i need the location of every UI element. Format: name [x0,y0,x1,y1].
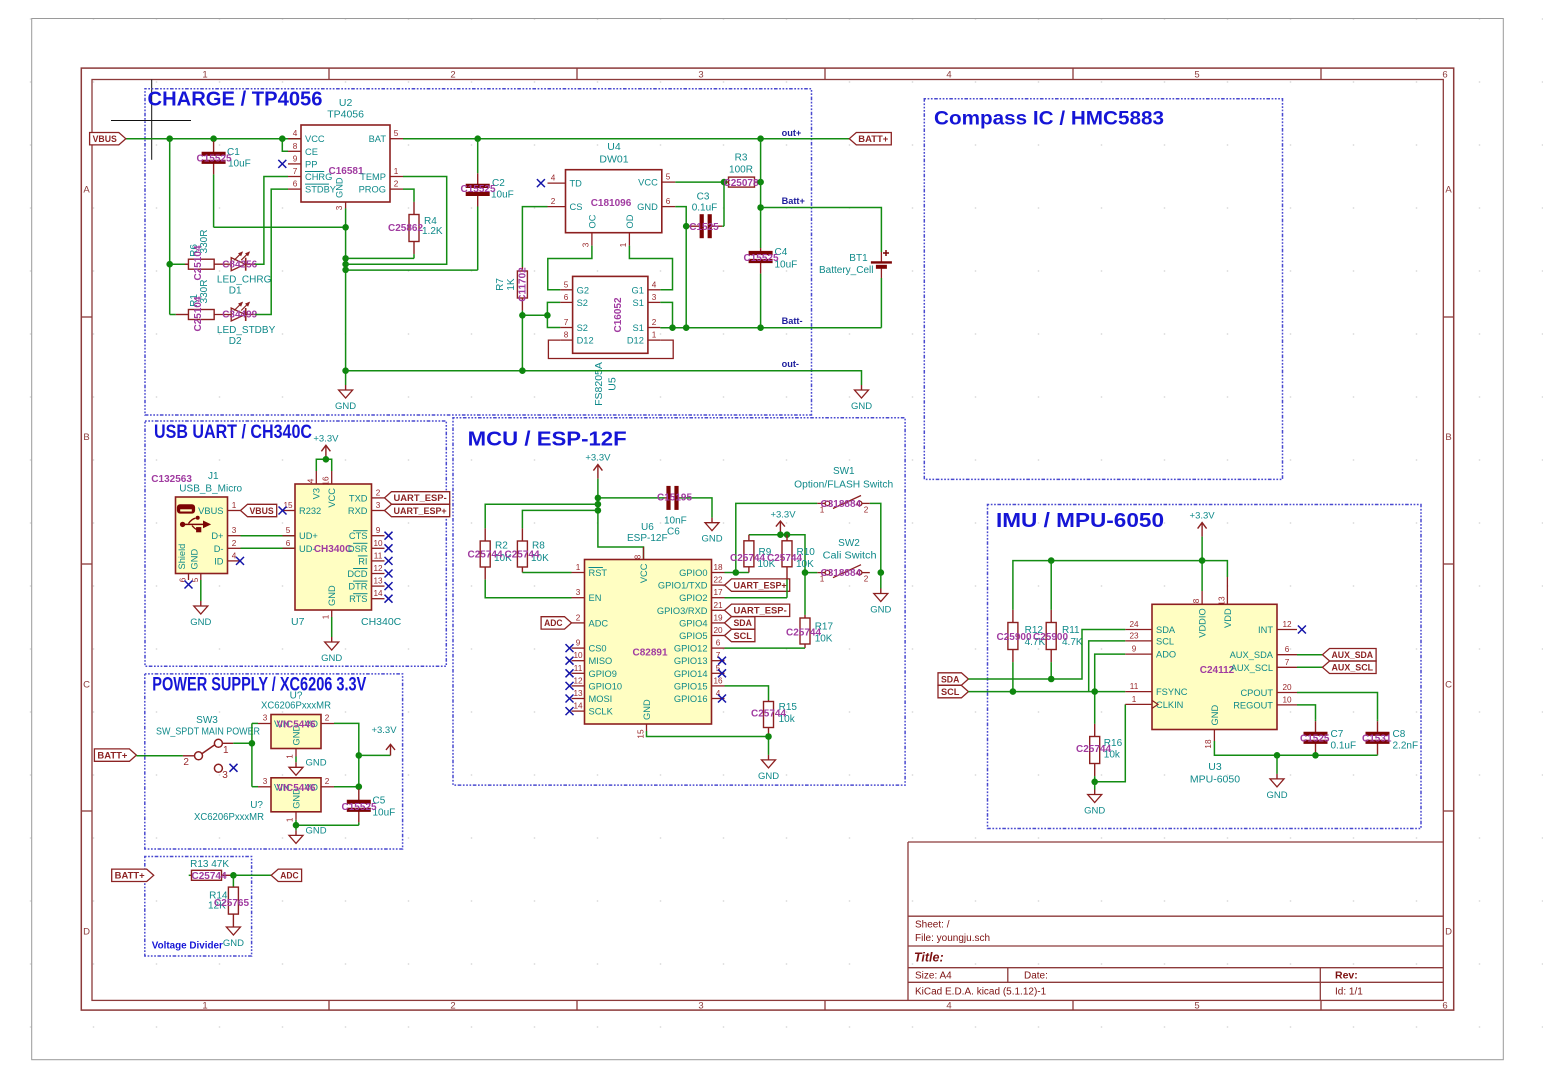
svg-text:SCLK: SCLK [589,707,614,717]
power +3.3V (mcu) [585,453,611,479]
wire +3.3V imu down [1201,537,1203,591]
wire to R6 [170,263,189,265]
junction Batt-/S1 [669,324,676,331]
junction BAT/C2 [474,135,481,142]
J1 pins bottom [177,544,201,583]
IC U3 MPU-6050 [1152,604,1277,729]
svg-text:C15525: C15525 [197,154,232,165]
svg-text:GND: GND [334,177,344,198]
svg-text:12: 12 [573,676,583,685]
svg-text:C25744: C25744 [468,550,503,561]
svg-text:SW1: SW1 [833,466,855,477]
junction +3.3V/R2 [595,501,602,508]
svg-text:GND: GND [306,757,327,768]
svg-text:D+: D+ [211,531,223,541]
svg-text:SDA: SDA [941,674,960,684]
svg-text:VDD: VDD [1223,608,1233,628]
svg-text:GND: GND [190,617,211,628]
junction VO2/C5 [356,783,363,790]
svg-text:C25744: C25744 [751,709,786,720]
global label SCL (mcu) [725,629,755,641]
svg-text:5: 5 [1194,70,1199,81]
svg-text:GPIO12: GPIO12 [674,644,708,654]
svg-text:7: 7 [293,167,298,176]
svg-text:15: 15 [637,729,646,739]
junction rail/+3.3V [777,531,784,538]
svg-text:CPOUT: CPOUT [1240,688,1273,698]
no-connect [718,695,726,703]
svg-text:7: 7 [564,318,569,327]
svg-text:STDBY: STDBY [305,185,336,195]
svg-text:5: 5 [1194,1000,1199,1011]
ground GND (imu) [1266,774,1287,801]
no-connect [385,544,393,552]
junction +3.3V usb [323,456,330,463]
junction Batt-/U4 GND [683,324,690,331]
svg-text:1K: 1K [506,278,517,291]
wire U8 GND [295,757,297,763]
svg-text:13: 13 [373,577,383,586]
svg-text:14: 14 [573,702,583,711]
ground GND (U9) [289,825,327,843]
svg-text:XC6206PxxxMR: XC6206PxxxMR [194,812,264,823]
svg-text:S2: S2 [577,298,588,308]
svg-text:SCL: SCL [734,631,753,641]
svg-text:C34499: C34499 [222,310,257,321]
svg-text:9: 9 [1132,645,1137,654]
svg-text:VBUS: VBUS [250,506,274,516]
no-connect [278,160,286,168]
wire R4 to GND net [346,257,414,259]
wire SW2 to R17 column [805,572,817,574]
LED D1 [214,252,255,271]
wire CPOUT to C8 [1297,693,1378,720]
no-connect [230,764,238,772]
svg-text:CHRG: CHRG [305,172,332,182]
svg-text:+3.3V: +3.3V [313,433,339,444]
svg-text:Rev:: Rev: [1335,970,1358,982]
U3 pin GND bottom [1204,705,1220,749]
switch SW3 SPDT [183,739,233,781]
wire R17 column [804,573,806,615]
svg-text:RI: RI [358,556,367,566]
section box Voltage Divider [145,857,252,957]
resistor R14 [228,887,238,922]
svg-text:GND: GND [223,938,244,949]
resistor R12 [1008,610,1018,679]
svg-text:GPIO9: GPIO9 [589,669,617,679]
resistor R9 [744,535,754,573]
junction rail/R10 [784,531,791,538]
svg-text:RXD: RXD [348,506,368,516]
svg-text:CS0: CS0 [589,644,607,654]
wire D1 to CHRG [255,177,288,265]
junction VCC/C3 [721,179,728,186]
svg-text:Cali Switch: Cali Switch [823,551,877,562]
svg-text:C318884: C318884 [821,568,862,579]
svg-text:U2: U2 [339,97,353,109]
svg-text:4: 4 [946,70,951,81]
wire S2 pins to R7 [547,302,560,327]
svg-text:FSYNC: FSYNC [1156,687,1188,697]
ground GND (U8) [289,757,327,775]
U6 pin VCC top [634,547,650,583]
svg-text:19: 19 [713,613,723,622]
junction GND rail (imu) [1274,752,1281,759]
svg-text:Id: 1/1: Id: 1/1 [1335,987,1363,998]
svg-text:C318884: C318884 [821,499,862,510]
wire GPIO0 up to SW1 [736,503,818,572]
J1 pins right [198,501,240,566]
junction U9 GND [293,822,300,829]
svg-text:1.2K: 1.2K [422,226,443,237]
U3 pins top VDDIO VDD [1192,577,1233,638]
wire LED branch vertical [169,139,171,315]
svg-text:TXD: TXD [349,493,368,503]
svg-text:ESP-12F: ESP-12F [627,533,668,544]
junction R17 column [802,569,809,576]
svg-text:USB UART / CH340C: USB UART / CH340C [154,421,312,443]
wire U9 GND rail to C5 [296,824,359,826]
wire R17 to GPIO12 [725,647,806,649]
wire regulator input column [251,723,253,786]
svg-text:SDA: SDA [1156,625,1176,635]
svg-text:C25104: C25104 [193,245,204,280]
regulator U8 XC6206 pins [258,714,334,759]
IC U6 ESP-12F [585,560,712,725]
svg-text:8: 8 [1192,598,1201,603]
net VBUS wire (top) [126,138,301,140]
svg-text:C: C [83,680,90,691]
wire CE to VBUS [282,139,288,152]
U5 D12 interconnect (symbol graphic) [548,340,673,358]
wire Batt- net [660,327,881,329]
U6 pin GND bottom [637,699,653,739]
ground GND (R16) [1084,790,1105,817]
wire BATT+ to switch [136,755,183,757]
wire U4 GND down [675,207,686,328]
svg-text:UD+: UD+ [299,531,318,541]
U3 pins left [1125,620,1187,710]
U2 pin GND bottom [334,177,345,210]
svg-text:C25862: C25862 [388,223,423,234]
svg-text:6: 6 [293,180,298,189]
svg-text:SDA: SDA [734,618,753,628]
svg-text:+3.3V: +3.3V [585,453,611,464]
junction SW2/GND column [878,569,885,576]
svg-text:RST: RST [589,568,608,578]
regulator U8 XC6206 [271,715,321,749]
resistor R16 [1090,700,1100,782]
wire R15 bottom [768,737,770,755]
battery BT1 [871,250,892,328]
svg-text:8: 8 [634,554,643,559]
svg-text:ADC: ADC [589,618,609,628]
svg-text:EN: EN [589,593,602,603]
svg-text:SW_SPDT MAIN POWER: SW_SPDT MAIN POWER [156,727,260,738]
resistor R13 [190,870,233,880]
capacitor C2 [466,139,490,270]
wire GPIO15 to R15 [725,686,769,700]
svg-text:B: B [1445,432,1451,443]
wire R7 to out- [521,315,523,370]
connector J1 USB_B_Micro [176,497,228,574]
svg-text:R3: R3 [735,153,748,164]
no-connect [279,507,287,515]
junction S2 pins [544,312,551,319]
junction VBUS/CE [279,135,286,142]
svg-text:C16581: C16581 [328,166,363,177]
U2 pins right [359,129,403,194]
resistor R3 [727,177,761,187]
svg-text:GND: GND [851,401,872,412]
svg-text:2: 2 [450,70,455,81]
svg-text:3: 3 [698,1000,703,1011]
svg-text:VCC: VCC [638,178,658,188]
svg-text:DW01: DW01 [599,154,628,166]
resistor R8 [517,528,527,573]
capacitor C6 [665,486,681,510]
svg-text:C1531: C1531 [1362,734,1392,745]
wire TEMP to GND net [346,177,447,265]
svg-text:3: 3 [335,205,344,210]
svg-text:XC6206PxxxMR: XC6206PxxxMR [261,701,331,712]
junction GND/C1 [342,224,349,231]
svg-text:2: 2 [232,539,237,548]
svg-text:21: 21 [713,601,723,610]
global label UART_ESP- (mcu) [725,604,790,616]
svg-text:GND: GND [327,585,337,606]
wire SCL pin drop [1089,641,1126,692]
wire pullup rail [749,535,805,573]
svg-text:7: 7 [1285,658,1290,667]
J1 usb icon [178,505,211,532]
junction Batt+/column [757,204,764,211]
svg-text:C24112: C24112 [1200,665,1235,676]
section box IMU / MPU-6050 [988,505,1422,829]
svg-text:C7: C7 [1331,729,1344,740]
svg-text:VCC: VCC [327,488,337,508]
wire CS to R7 [522,207,547,267]
wire to U8 VIN [252,722,258,724]
IC U2 TP4056 [301,125,390,202]
svg-text:C15195: C15195 [657,493,692,504]
svg-text:C3: C3 [697,192,710,203]
svg-text:2: 2 [450,1000,455,1011]
svg-text:GPIO0: GPIO0 [679,568,707,578]
svg-text:RTS: RTS [349,594,367,604]
global label UART_ESP- (usb) [385,492,450,504]
svg-text:C1525: C1525 [1300,734,1330,745]
svg-text:2: 2 [325,777,330,786]
wire GND net vertical [345,208,347,385]
junction SCL/ADO/R16 [1091,688,1098,695]
svg-text:C25744: C25744 [505,550,540,561]
svg-text:1: 1 [202,1000,207,1011]
svg-text:D12: D12 [577,336,594,346]
junction +3.3V out [356,752,363,759]
wire U6 GND to R15 bottom [647,731,769,737]
svg-text:R7: R7 [495,278,506,291]
sheet frame [81,68,1453,1011]
svg-text:1: 1 [202,70,207,81]
svg-text:J1: J1 [208,471,219,482]
svg-text:A: A [1445,185,1452,196]
no-connect [236,557,244,565]
svg-text:GPIO1/TXD: GPIO1/TXD [658,581,708,591]
svg-text:10: 10 [1282,695,1292,704]
junction divider tap [230,872,237,879]
svg-text:C25900: C25900 [997,632,1032,643]
svg-text:FS8205A: FS8205A [593,362,605,406]
ground GND (U7) [321,637,342,664]
svg-text:6: 6 [666,197,671,206]
svg-text:ID: ID [214,556,224,566]
svg-text:2: 2 [325,714,330,723]
svg-text:16: 16 [713,676,723,685]
wire GPIO0 to R9/SW1 [725,572,749,574]
svg-text:USB_B_Micro: USB_B_Micro [179,484,242,495]
no-connect [566,644,574,652]
resistor R10 [782,535,792,598]
svg-text:C82891: C82891 [632,648,667,659]
svg-text:U3: U3 [1208,761,1222,773]
svg-text:CTS: CTS [349,531,368,541]
svg-text:VCC: VCC [639,563,649,583]
svg-text:4: 4 [946,1000,951,1011]
svg-text:4: 4 [232,551,237,560]
svg-text:LED_STDBY: LED_STDBY [217,325,276,336]
svg-text:CH340C: CH340C [361,616,402,628]
wire +3.3V mcu down [598,479,644,560]
U6 pins right [657,563,725,704]
svg-text:SCL: SCL [1156,636,1174,646]
resistor R2 [480,528,490,580]
svg-text:SCL: SCL [941,687,960,697]
global label BATT+ (charge) [849,133,891,145]
svg-text:Size: A4: Size: A4 [915,970,952,981]
wire CLKIN [1095,704,1126,781]
svg-text:GPIO3/RXD: GPIO3/RXD [657,606,708,616]
svg-text:4: 4 [306,478,315,483]
svg-text:6: 6 [716,639,721,648]
svg-text:C181096: C181096 [591,198,632,209]
junction rail/R11 [1048,557,1055,564]
wire to U9 VIN [252,786,258,788]
resistor R6 [185,259,214,269]
ground GND (J1) [190,601,211,628]
svg-text:VCC: VCC [305,134,325,144]
svg-text:CE: CE [305,147,318,157]
svg-text:DCD: DCD [347,569,367,579]
power +3.3V (imu) [1190,511,1216,537]
svg-text:CHARGE / TP4056: CHARGE / TP4056 [148,89,323,111]
global label SDA (imu) [938,673,968,685]
svg-text:0.1uF: 0.1uF [1331,741,1357,752]
svg-text:10: 10 [373,539,383,548]
svg-text:1: 1 [286,817,295,822]
junction GPIO0 [733,569,740,576]
capacitor C4 [749,248,773,328]
junction SCL/R12 [1010,688,1017,695]
wire AUX_SDA [1297,654,1323,656]
global label SCL (imu) [938,685,968,697]
junction GND/R4 [342,255,349,262]
svg-text:16: 16 [322,476,331,486]
svg-text:3: 3 [576,588,581,597]
svg-text:AUX_SDA: AUX_SDA [1332,650,1374,660]
junction VBUS/LED branch [166,135,173,142]
svg-text:C25078: C25078 [723,178,758,189]
svg-text:CS: CS [570,202,583,212]
svg-text:C25744: C25744 [192,871,227,882]
svg-text:9: 9 [376,526,381,535]
svg-text:+3.3V: +3.3V [770,510,796,521]
svg-text:C6: C6 [667,527,680,538]
wire J1 GND [200,580,202,601]
global label BATT+ (divider) [112,869,154,881]
junction GND/C2 [342,267,349,274]
svg-text:+3.3V: +3.3V [371,725,397,736]
svg-text:D1: D1 [229,286,242,297]
no-connect [566,695,574,703]
svg-text:24: 24 [1129,620,1139,629]
svg-text:AUX_SCL: AUX_SCL [1332,663,1374,673]
U5 pins right [627,280,660,345]
svg-text:Batt+: Batt+ [782,196,805,206]
svg-text:G2: G2 [577,285,589,295]
no-connect [566,682,574,690]
svg-text:U6: U6 [641,522,654,533]
U4 pins bottom OC OD [582,214,636,247]
capacitor C5 [347,787,371,826]
wire out- net [346,371,862,385]
capacitor C1 [202,139,226,228]
svg-text:11: 11 [574,664,583,673]
wire OD to G1 [629,246,672,290]
svg-text:2: 2 [652,318,657,327]
svg-text:TP4056: TP4056 [327,109,364,121]
wire +3.3V to VDD [1202,561,1227,577]
svg-text:POWER SUPPLY / XC6206 3.3V: POWER SUPPLY / XC6206 3.3V [152,674,366,696]
svg-text:1: 1 [223,745,229,756]
resistor R7 [517,267,527,315]
svg-text:C25104: C25104 [193,296,204,331]
svg-text:2: 2 [864,575,869,584]
svg-text:2: 2 [864,506,869,515]
junction +3.3V/C6 [595,495,602,502]
LED D2 [214,303,255,322]
resistor R11 [1046,610,1056,679]
svg-text:UART_ESP+: UART_ESP+ [394,506,447,516]
svg-text:LED_CHRG: LED_CHRG [217,275,272,286]
svg-text:Shield: Shield [177,544,187,570]
svg-text:C11702: C11702 [518,267,529,302]
wire +3.3V to R8 [522,510,598,528]
wire D+ to UD+ [241,535,296,537]
no-connect [566,657,574,665]
svg-text:0.1uF: 0.1uF [692,203,718,214]
resistor R4 [409,201,419,258]
junction GND/out- [342,367,349,374]
resistor R15 [764,700,774,737]
svg-text:BAT: BAT [369,134,387,144]
wire C3 up to VCC net [723,182,725,226]
resistor R17 [800,615,810,648]
svg-text:Date:: Date: [1024,970,1048,981]
svg-text:IMU / MPU-6050: IMU / MPU-6050 [996,510,1164,532]
svg-text:11: 11 [374,551,383,560]
